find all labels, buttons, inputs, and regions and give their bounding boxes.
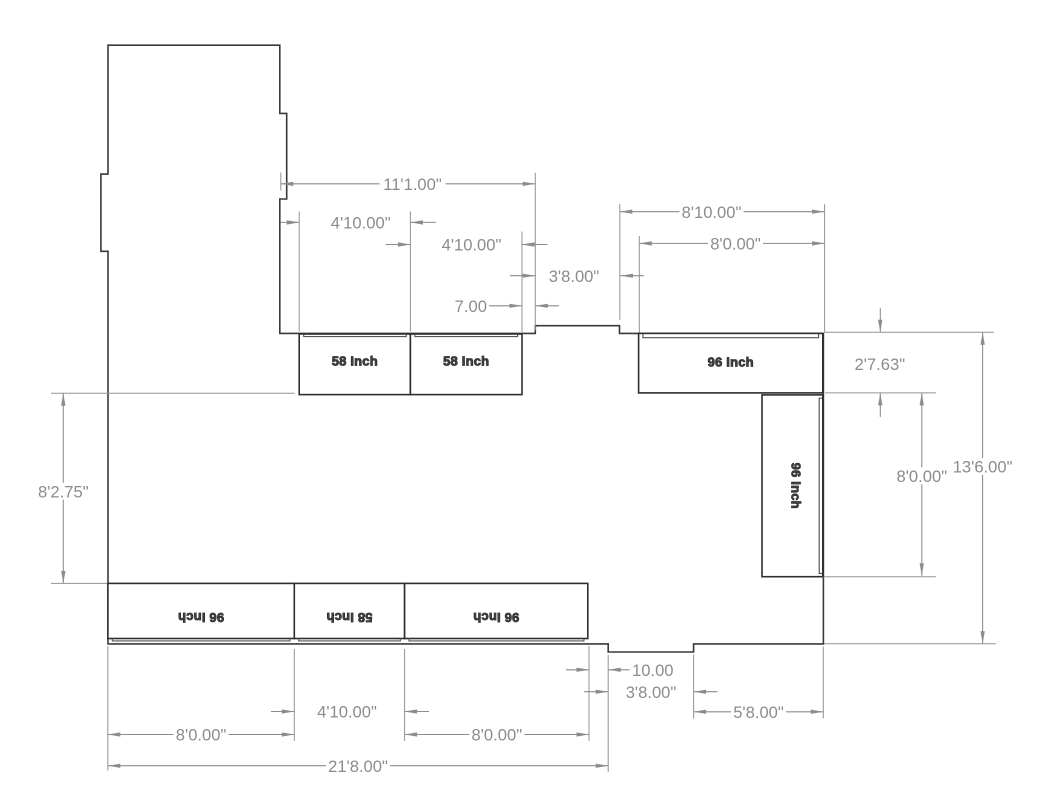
svg-text:4'10.00": 4'10.00" <box>442 236 502 255</box>
ext line left end of 11ft1 dim <box>280 172 282 190</box>
svg-text:4'10.00": 4'10.00" <box>331 214 391 233</box>
dimension 13'6.00" right <box>951 332 1015 644</box>
svg-text:11'1.00": 11'1.00" <box>383 175 442 194</box>
svg-text:4'10.00": 4'10.00" <box>317 703 377 722</box>
ext line x108 bottom <box>107 646 109 771</box>
svg-text:58 Inch: 58 Inch <box>443 353 489 368</box>
cabinet 58 Inch top middle <box>410 334 522 395</box>
ext line y644 right <box>824 643 996 645</box>
dimension 11'1.00" top <box>281 175 536 194</box>
cabinet 96 Inch bottom right <box>405 583 588 641</box>
ext line x405 bottom <box>404 649 406 741</box>
cabinet 58 Inch bottom middle <box>294 583 404 641</box>
ext line y393 left <box>51 392 295 394</box>
dimension 10.00 bottom <box>566 661 674 680</box>
cabinet 96 Inch right wall vertical <box>762 395 823 577</box>
dimension 4'10.00" upper right <box>386 236 548 255</box>
cabinet 96 Inch bottom left <box>108 583 294 641</box>
svg-text:8'0.00": 8'0.00" <box>710 235 761 254</box>
dimension 21'8.00" bottom <box>108 757 608 776</box>
ext line x620 wall recess <box>619 204 621 320</box>
ext line x694 bottom <box>693 655 695 719</box>
svg-text:10.00: 10.00 <box>632 661 674 680</box>
ext line y393 right <box>825 392 936 394</box>
ext line x589 bottom <box>588 646 590 741</box>
dimension 2'7.63" right <box>855 308 906 417</box>
svg-text:21'8.00": 21'8.00" <box>328 757 388 776</box>
svg-text:58 Inch: 58 Inch <box>326 610 372 625</box>
ext line x299 cabinet edge <box>298 212 300 332</box>
cabinet 96 Inch top right <box>639 333 823 393</box>
svg-text:8'0.00": 8'0.00" <box>176 726 227 745</box>
ext line x535 shared <box>534 173 536 331</box>
svg-text:3'8.00": 3'8.00" <box>626 683 677 702</box>
svg-text:96 Inch: 96 Inch <box>473 610 519 625</box>
svg-text:8'10.00": 8'10.00" <box>682 203 742 222</box>
dimension 4'10.00" bottom <box>271 703 429 722</box>
svg-text:96 Inch: 96 Inch <box>178 610 224 625</box>
svg-text:8'0.00": 8'0.00" <box>472 726 523 745</box>
dimension 8'0.00" right <box>894 393 949 576</box>
ext line x294 bottom <box>293 649 295 741</box>
dimension 4'10.00" upper left <box>281 214 437 233</box>
svg-text:58 Inch: 58 Inch <box>332 353 378 368</box>
svg-text:8'0.00": 8'0.00" <box>897 467 948 486</box>
ext line x823 bottom <box>822 647 824 719</box>
dimension 8'0.00" bottom left <box>108 726 294 745</box>
ext line y332 top right <box>825 331 994 333</box>
ext line x639 cabinet edge <box>638 236 640 333</box>
ext line x410 cabinet joint <box>409 212 411 332</box>
ext line x522 cabinet edge <box>521 232 523 333</box>
dimension 5'8.00" bottom <box>694 703 824 722</box>
svg-text:2'7.63": 2'7.63" <box>855 355 906 374</box>
svg-text:96 Inch: 96 Inch <box>708 355 754 370</box>
dimension 8'0.00" bottom right <box>405 726 589 745</box>
svg-text:8'2.75": 8'2.75" <box>38 482 89 501</box>
dimension 8'0.00" top right <box>639 235 824 254</box>
svg-text:96 Inch: 96 Inch <box>788 463 803 509</box>
cabinet 58 Inch top left <box>299 334 410 395</box>
dimension 8'10.00" top right <box>620 203 825 222</box>
svg-text:3'8.00": 3'8.00" <box>549 267 600 286</box>
ext line y583 left <box>51 582 107 584</box>
wall outline of shop floor plan <box>101 45 824 652</box>
ext line y577 right <box>823 576 936 578</box>
dimension 3'8.00" bottom <box>584 683 718 702</box>
dimension 7.00 top <box>455 297 559 316</box>
dimension 8'2.75" left <box>36 393 91 583</box>
ext line x825 right wall <box>824 204 826 332</box>
svg-text:7.00: 7.00 <box>455 297 487 316</box>
dimension 3'8.00" top <box>510 267 644 286</box>
ext line x608 bottom <box>607 655 609 772</box>
svg-text:13'6.00": 13'6.00" <box>953 458 1013 477</box>
svg-text:5'8.00": 5'8.00" <box>733 703 784 722</box>
